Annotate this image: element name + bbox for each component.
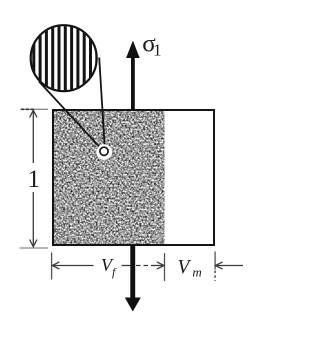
callout tangent line (right)	[99, 58, 105, 149]
bottom dimension extension tick at fiber boundary	[164, 253, 166, 281]
callout tangent line (left)	[39, 81, 101, 148]
fiber region shading (stippled gray)	[54, 111, 165, 246]
Vm right arrow (pointing left at right edge tick)	[215, 262, 243, 269]
single fiber circle in square	[97, 144, 113, 160]
RVE square outline	[53, 110, 214, 245]
top stress arrow sigma1	[126, 41, 140, 111]
fiber stripes inside magnifier	[34, 24, 97, 93]
bottom extension line for unit dimension	[20, 247, 49, 249]
svg-text:1: 1	[28, 166, 41, 193]
bottom dimension extension tick at left edge	[51, 253, 53, 280]
Vf dimension line with outward arrows	[52, 262, 164, 269]
bottom dimension extension tick at right edge	[214, 252, 216, 270]
top extension line for unit dimension	[21, 108, 49, 110]
magnifier circle (fiber close-up)	[31, 25, 97, 91]
unit dimension line "1" with arrows	[30, 110, 37, 246]
bottom stress arrow	[125, 246, 141, 312]
